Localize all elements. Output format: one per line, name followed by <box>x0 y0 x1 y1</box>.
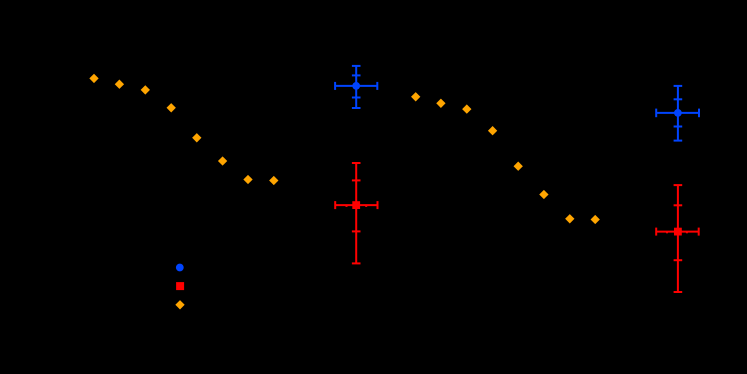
blue y error bar line right <box>677 86 679 141</box>
blue y error outer bottom cap <box>352 107 361 109</box>
red y error outer bottom cap right <box>674 291 683 293</box>
blue circle marker left <box>352 82 360 90</box>
blue x error left cap <box>334 82 336 90</box>
blue y error inner top cap <box>352 74 361 76</box>
blue x error bar line <box>335 85 377 87</box>
diamond point R8 <box>591 215 600 224</box>
diamond point L7 <box>243 175 252 184</box>
red x error left cap <box>334 201 336 209</box>
diamond point L8 <box>269 176 278 185</box>
right panel blue data point with error bars <box>656 86 699 141</box>
legend blue circle <box>176 264 184 272</box>
diamond point R1 <box>411 92 420 101</box>
red y error inner top cap right <box>674 204 683 206</box>
left panel orange diamond data points <box>89 74 278 185</box>
blue y error outer top cap <box>352 65 361 67</box>
diamond point R2 <box>436 99 445 108</box>
red x error bar line <box>335 204 377 206</box>
red x error left cap right <box>655 228 657 236</box>
red x error inner left tick <box>346 205 348 207</box>
red y error bar line right <box>677 185 679 292</box>
blue y error outer top cap right <box>674 85 683 87</box>
red x error inner left tick right <box>666 231 668 233</box>
red y error outer top cap <box>352 162 361 164</box>
blue y error outer bottom cap right <box>674 140 683 142</box>
blue x error left cap right <box>655 109 657 118</box>
red x error inner right tick right <box>686 231 688 233</box>
blue y error bar line <box>355 66 357 108</box>
blue x error right cap right <box>698 109 700 118</box>
blue y error inner bottom cap <box>352 97 361 99</box>
diamond point L2 <box>115 80 124 89</box>
legend red square <box>176 282 184 290</box>
diamond point R5 <box>514 162 523 171</box>
blue y error inner top cap right <box>674 98 683 100</box>
right panel orange diamond data points <box>411 92 600 224</box>
legend orange diamond <box>175 300 184 309</box>
red y error bar line <box>355 163 357 263</box>
red square marker right <box>674 228 682 236</box>
red y error outer bottom cap <box>352 262 361 264</box>
diamond point L3 <box>141 85 150 94</box>
right panel red data point with error bars <box>656 185 699 292</box>
diamond point L5 <box>192 133 201 142</box>
red x error bar line right <box>656 231 699 233</box>
red y error outer top cap right <box>674 184 683 186</box>
diamond point R4 <box>488 126 497 135</box>
diamond point L4 <box>167 103 176 112</box>
red x error inner right tick <box>365 205 367 207</box>
left panel red data point with error bars <box>335 163 377 263</box>
red y error inner bottom cap <box>352 230 361 232</box>
red x error right cap right <box>698 228 700 236</box>
diamond point R3 <box>462 104 471 113</box>
blue x error right cap <box>376 82 378 90</box>
red y error inner top cap <box>352 179 361 181</box>
red x error right cap <box>377 201 379 209</box>
diamond point L1 <box>89 74 98 83</box>
diamond point L6 <box>218 156 227 165</box>
blue circle marker right <box>674 109 682 117</box>
blue x error bar line right <box>656 112 699 114</box>
diamond point R6 <box>539 190 548 199</box>
left panel blue data point with error bars <box>335 66 377 108</box>
diamond point R7 <box>565 214 574 223</box>
red y error inner bottom cap right <box>674 259 683 261</box>
red square marker left <box>352 201 360 209</box>
blue y error inner bottom cap right <box>674 126 683 128</box>
